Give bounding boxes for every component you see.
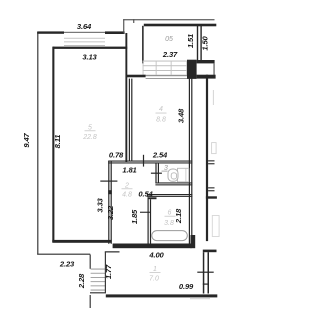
svg-text:1.85: 1.85 bbox=[130, 209, 139, 224]
svg-text:3.33: 3.33 bbox=[96, 197, 105, 212]
wall balcony left bbox=[142, 26, 144, 64]
svg-text:4.8: 4.8 bbox=[122, 192, 132, 199]
door tick toilet bbox=[151, 173, 162, 174]
window W2 room4 top lines bbox=[146, 75, 187, 79]
wall bath left double bbox=[148, 197, 152, 243]
window balcony glazing grid bbox=[143, 61, 188, 76]
svg-text:1: 1 bbox=[153, 266, 157, 273]
text room2 label bbox=[122, 183, 133, 199]
svg-text:2.23: 2.23 bbox=[59, 260, 75, 269]
svg-text:2.28: 2.28 bbox=[77, 273, 86, 289]
wire neighbour balcony edge bbox=[214, 63, 215, 77]
wall right stub upper bbox=[208, 160, 214, 164]
svg-text:3.8: 3.8 bbox=[164, 220, 174, 227]
svg-text:1.81: 1.81 bbox=[122, 166, 136, 175]
fixture ghost neighbour sink bbox=[212, 143, 217, 154]
wall room2 left double bbox=[108, 161, 112, 244]
fixture toilet tank divider bbox=[185, 168, 187, 182]
wall corridor top double bbox=[108, 161, 192, 164]
wall apartment inner right double bbox=[189, 79, 193, 244]
svg-text:6: 6 bbox=[168, 210, 172, 217]
svg-text:3.64: 3.64 bbox=[77, 22, 92, 31]
wall bottom main bbox=[106, 294, 218, 297]
svg-text:2.18: 2.18 bbox=[174, 208, 183, 224]
wall stair landing line bbox=[90, 292, 106, 293]
wall toilet bottom double bbox=[155, 182, 192, 185]
wall stair left upper bbox=[90, 255, 91, 269]
text room4 label bbox=[156, 106, 167, 124]
wall room5 bottom bbox=[52, 240, 111, 243]
wall hall top thick bbox=[113, 244, 192, 249]
fixture toilet bowl inner bbox=[171, 173, 176, 179]
wall hall right chunk bbox=[191, 235, 196, 248]
wall balcony top bbox=[144, 24, 217, 27]
svg-text:05: 05 bbox=[165, 36, 173, 43]
svg-text:22.8: 22.8 bbox=[82, 134, 97, 141]
node tick entry door bbox=[197, 272, 213, 273]
svg-text:3.13: 3.13 bbox=[82, 53, 97, 62]
svg-text:1.77: 1.77 bbox=[104, 264, 113, 279]
wall room5 top inner line bbox=[53, 47, 127, 49]
svg-text:8.8: 8.8 bbox=[156, 117, 166, 124]
svg-text:1.51: 1.51 bbox=[186, 34, 195, 48]
svg-text:1.50: 1.50 bbox=[201, 35, 210, 50]
wall pier between balconies bbox=[187, 60, 197, 79]
wall hall left threshold bbox=[105, 251, 120, 252]
wall stair right bbox=[105, 252, 106, 293]
text room6 label bbox=[164, 210, 175, 228]
wire ghost below wall bbox=[190, 297, 210, 300]
fixture toilet tank bbox=[178, 168, 189, 182]
svg-text:2.54: 2.54 bbox=[152, 151, 168, 160]
wall main top left segment bbox=[126, 75, 146, 78]
wall neighbour balcony bottom bbox=[197, 60, 215, 63]
svg-text:0.78: 0.78 bbox=[109, 151, 124, 160]
wall room5 left bbox=[52, 47, 54, 242]
svg-text:3.22: 3.22 bbox=[106, 205, 115, 220]
wire ghost stair window bbox=[212, 90, 215, 105]
wall right stub lower bbox=[208, 187, 214, 191]
stairs treads bbox=[91, 269, 106, 291]
text room5 label bbox=[82, 125, 97, 141]
node tick near bath wall bbox=[140, 212, 151, 213]
text room1 label bbox=[149, 266, 160, 283]
wall stair left lower bbox=[90, 295, 91, 308]
door frame entry double bbox=[203, 252, 209, 293]
wall toilet left double bbox=[155, 163, 159, 184]
wall balcony right double bbox=[197, 26, 202, 60]
wall bath jog bbox=[148, 197, 157, 199]
node tick on room2 wall bbox=[100, 181, 117, 182]
wire balcony slab line bbox=[123, 19, 214, 33]
wall right top stub horizontal bbox=[206, 196, 217, 198]
svg-text:3.48: 3.48 bbox=[177, 108, 186, 123]
wall entry stub top right bbox=[203, 250, 217, 253]
svg-text:0.54: 0.54 bbox=[138, 190, 153, 199]
svg-text:8.11: 8.11 bbox=[53, 135, 62, 149]
window W1 top line room5 bbox=[64, 32, 105, 33]
text room3 label bbox=[162, 165, 169, 172]
wall room4 left double bbox=[129, 79, 133, 162]
svg-text:2.37: 2.37 bbox=[162, 50, 178, 59]
node rung entry door bbox=[203, 284, 209, 285]
wall bath top double bbox=[147, 194, 193, 197]
svg-text:7.0: 7.0 bbox=[149, 276, 159, 283]
window W1 glazing lines bbox=[64, 38, 105, 46]
wall main right bbox=[206, 75, 208, 241]
svg-text:4: 4 bbox=[159, 106, 163, 113]
wall room5 top right pier bbox=[105, 31, 125, 34]
svg-text:0.99: 0.99 bbox=[179, 282, 194, 291]
wall room5 top outer band bbox=[37, 31, 64, 33]
node tick on corridor wall bbox=[143, 155, 144, 167]
wall room5 right bbox=[125, 33, 127, 162]
wall main top right segment bbox=[197, 75, 216, 79]
wire outer boundary left bbox=[37, 32, 90, 255]
svg-text:4.00: 4.00 bbox=[148, 251, 164, 260]
svg-text:9.47: 9.47 bbox=[22, 132, 31, 147]
fixture ghost neighbour bath bbox=[212, 216, 219, 237]
fixture toilet bowl bbox=[168, 169, 178, 181]
fixture bathtub bbox=[152, 231, 188, 241]
